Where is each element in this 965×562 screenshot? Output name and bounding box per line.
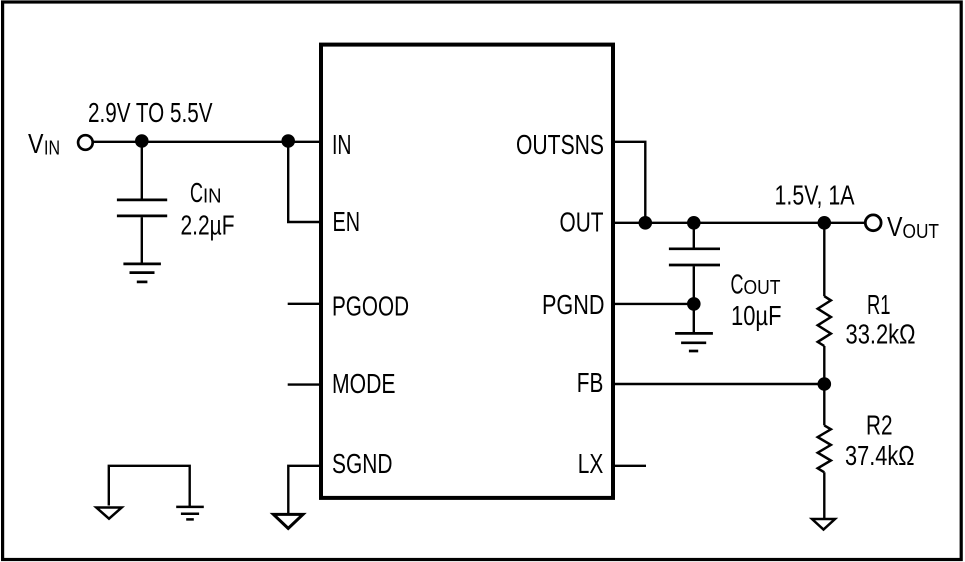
pin label FB xyxy=(577,367,604,398)
svg-text:SGND: SGND xyxy=(332,448,393,479)
svg-text:OUT: OUT xyxy=(903,221,940,243)
svg-text:R2: R2 xyxy=(866,409,893,440)
wire ground-tie bridge xyxy=(109,466,190,506)
wire R1 to FB node xyxy=(823,346,825,425)
junction FB node xyxy=(818,377,832,391)
junction at EN tap xyxy=(281,134,295,148)
svg-text:33.2kΩ: 33.2kΩ xyxy=(846,318,916,349)
svg-text:1.5V, 1A: 1.5V, 1A xyxy=(775,179,855,210)
wire CIN bottom lead xyxy=(141,217,143,263)
label COUT xyxy=(731,269,781,300)
label 37.4kOhm xyxy=(845,440,915,471)
label 2.2uF xyxy=(181,210,235,241)
wire EN drop xyxy=(288,142,321,222)
wire PGND xyxy=(613,303,694,305)
svg-text:2.2µF: 2.2µF xyxy=(181,210,235,241)
svg-text:C: C xyxy=(731,269,744,300)
resistor R1 xyxy=(818,296,831,346)
label CIN xyxy=(190,177,222,208)
terminal VIN xyxy=(78,135,93,150)
svg-text:R1: R1 xyxy=(867,289,891,320)
svg-text:LX: LX xyxy=(578,448,604,479)
wire R2 to ground xyxy=(823,472,825,518)
label 10uF xyxy=(731,300,782,331)
svg-text:C: C xyxy=(190,177,203,208)
wire OUT to VOUT xyxy=(613,222,864,224)
terminal VOUT xyxy=(865,215,881,231)
label 1.5V, 1A xyxy=(775,179,855,210)
pin label PGND xyxy=(542,289,605,320)
junction PGND/COUT xyxy=(687,297,701,311)
pin label LX xyxy=(578,448,604,479)
pin label OUTSNS xyxy=(516,129,604,160)
svg-text:V: V xyxy=(887,211,903,242)
pin label OUT xyxy=(560,207,604,238)
svg-text:OUTSNS: OUTSNS xyxy=(516,129,604,160)
label R2 xyxy=(866,409,893,440)
junction OUTSNS/OUT xyxy=(639,216,653,230)
wire VIN to IN xyxy=(93,141,321,143)
label 2.9V TO 5.5V xyxy=(88,97,213,128)
junction at CIN tap xyxy=(135,134,149,148)
wire COUT top lead xyxy=(693,223,695,248)
wire CIN top lead xyxy=(141,142,143,199)
junction R1 tap xyxy=(818,216,832,230)
pin label SGND xyxy=(332,448,393,479)
ground R2 triangle xyxy=(812,519,835,530)
svg-text:PGOOD: PGOOD xyxy=(332,291,409,322)
ground under CIN xyxy=(123,264,160,282)
svg-text:37.4kΩ: 37.4kΩ xyxy=(845,440,915,471)
capacitor CIN xyxy=(117,200,167,216)
capacitor COUT xyxy=(669,249,720,265)
svg-text:OUT: OUT xyxy=(560,207,604,238)
wire COUT bottom lead xyxy=(693,266,695,333)
svg-text:IN: IN xyxy=(44,138,60,160)
wire SGND to ground xyxy=(288,466,321,513)
svg-text:2.9V TO 5.5V: 2.9V TO 5.5V xyxy=(88,97,213,128)
ground SGND triangle xyxy=(273,514,303,528)
wire OUTSNS loop xyxy=(613,142,645,223)
pin label EN xyxy=(333,206,361,237)
IC U1 xyxy=(321,45,613,498)
svg-text:OUT: OUT xyxy=(744,277,781,299)
svg-text:10µF: 10µF xyxy=(731,300,782,331)
wire FB xyxy=(613,383,824,385)
pin label MODE xyxy=(332,368,396,399)
svg-text:PGND: PGND xyxy=(542,289,605,320)
pin label IN xyxy=(332,129,352,160)
ground under COUT xyxy=(675,333,713,351)
junction COUT tap xyxy=(687,216,701,230)
label 33.2kOhm xyxy=(846,318,916,349)
svg-text:FB: FB xyxy=(577,367,604,398)
svg-text:EN: EN xyxy=(333,206,361,237)
svg-text:MODE: MODE xyxy=(332,368,396,399)
ground legend earth xyxy=(176,507,204,520)
ground legend triangle xyxy=(96,508,121,519)
pin label PGOOD xyxy=(332,291,409,322)
wire MODE stub xyxy=(288,383,321,385)
wire LX stub xyxy=(613,465,646,467)
label VOUT xyxy=(887,211,939,243)
svg-text:IN: IN xyxy=(203,186,222,208)
resistor R2 xyxy=(818,425,831,472)
svg-text:IN: IN xyxy=(332,129,352,160)
wire OUT to R1 xyxy=(823,223,825,296)
svg-text:V: V xyxy=(28,128,44,159)
label VIN xyxy=(28,128,60,160)
label R1 xyxy=(867,289,891,320)
wire PGOOD stub xyxy=(288,303,321,305)
